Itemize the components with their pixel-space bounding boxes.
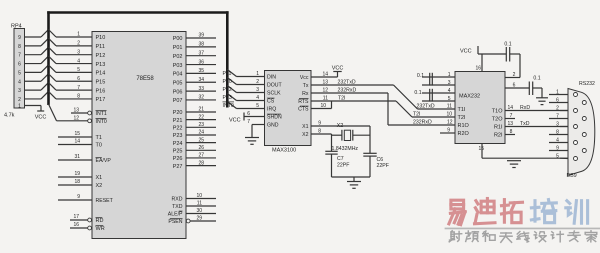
svg-text:VCC: VCC xyxy=(460,49,472,55)
svg-text:3: 3 xyxy=(18,88,21,94)
svg-text:12: 12 xyxy=(447,119,453,125)
svg-text:P22: P22 xyxy=(173,126,183,132)
capacitor 0.1 (C1+ pin1 / C1- pin3) xyxy=(417,72,455,86)
capacitor C7 22PF xyxy=(325,134,349,177)
svg-text:P15: P15 xyxy=(96,79,106,85)
svg-text:8: 8 xyxy=(77,94,80,100)
svg-text:T0: T0 xyxy=(96,143,102,149)
wires bus to MAX3100 (P11 P10 P12 P13 INT0) xyxy=(223,70,265,109)
svg-text:16: 16 xyxy=(475,66,481,72)
capacitor C6 22PF xyxy=(363,126,389,177)
svg-text:31: 31 xyxy=(74,154,80,160)
svg-text:P21: P21 xyxy=(173,118,183,124)
bus P1/INT0 (right vertical) xyxy=(226,11,229,107)
svg-text:33: 33 xyxy=(198,86,204,92)
svg-text:25: 25 xyxy=(198,137,204,143)
svg-text:0.1: 0.1 xyxy=(414,90,421,96)
svg-text:PSEN: PSEN xyxy=(168,219,182,225)
svg-text:R2I: R2I xyxy=(494,133,503,139)
svg-text:X2: X2 xyxy=(302,132,308,138)
svg-text:7: 7 xyxy=(247,119,250,125)
wire PSEN stub pin 29 xyxy=(186,216,216,223)
svg-text:VCC: VCC xyxy=(229,118,241,124)
svg-text:T2I: T2I xyxy=(413,111,421,117)
svg-text:P24: P24 xyxy=(173,141,183,147)
svg-text:P04: P04 xyxy=(173,72,183,78)
svg-text:11: 11 xyxy=(323,95,328,101)
svg-text:6: 6 xyxy=(77,76,80,82)
svg-text:2: 2 xyxy=(77,41,80,47)
driver U3 MAX232 xyxy=(455,72,505,144)
svg-text:15: 15 xyxy=(74,131,80,137)
svg-text:Rx: Rx xyxy=(302,91,309,97)
svg-text:9: 9 xyxy=(18,35,21,41)
wires P00-P07 stubs pins 39-32 xyxy=(186,33,216,101)
svg-text:WR: WR xyxy=(96,226,105,232)
bus P1/INT0 (top horizontal) xyxy=(47,11,228,14)
svg-text:9: 9 xyxy=(318,120,321,126)
svg-text:36: 36 xyxy=(198,59,204,65)
svg-text:R1O: R1O xyxy=(458,123,470,129)
svg-text:26: 26 xyxy=(198,145,204,151)
svg-text:P06: P06 xyxy=(173,89,183,95)
wire DB9 pin 2 lead xyxy=(560,110,568,112)
svg-text:14: 14 xyxy=(74,139,80,145)
svg-text:VCC: VCC xyxy=(35,115,47,121)
svg-text:32: 32 xyxy=(198,95,204,101)
svg-text:X2: X2 xyxy=(337,123,344,129)
wire RXD stub pin 10 xyxy=(186,193,216,199)
svg-text:RD: RD xyxy=(96,218,104,224)
svg-text:7: 7 xyxy=(510,113,513,119)
svg-text:22PF: 22PF xyxy=(337,162,349,168)
MCU U1 78E58 xyxy=(92,32,186,239)
svg-text:P07: P07 xyxy=(173,98,183,104)
svg-text:232TxD: 232TxD xyxy=(338,79,356,85)
wires P20-P27 stubs pins 21-28 xyxy=(186,107,216,167)
svg-text:DIN: DIN xyxy=(267,75,276,81)
power VCC (MAX232 pin 16) xyxy=(460,46,506,72)
wire net 232TxD (MAX3100 Tx pin 13 to MAX232 T1I pin 11) xyxy=(311,79,455,109)
svg-text:MAX3100: MAX3100 xyxy=(272,148,296,154)
svg-text:P01: P01 xyxy=(173,45,183,51)
svg-text:R1I: R1I xyxy=(494,125,503,131)
svg-text:16: 16 xyxy=(73,222,79,228)
svg-text:RP4: RP4 xyxy=(11,24,22,30)
svg-text:12: 12 xyxy=(322,87,328,93)
svg-text:6: 6 xyxy=(18,62,21,68)
svg-text:VCC: VCC xyxy=(332,66,344,72)
svg-text:RESET: RESET xyxy=(96,198,114,204)
svg-text:X1: X1 xyxy=(302,124,308,130)
wire net 232RxD (MAX3100 Rx pin 12 to MAX232 R1O pin 12) xyxy=(311,87,455,125)
wire R2I stub (MAX232 pin 8) xyxy=(505,129,515,135)
svg-text:18: 18 xyxy=(74,179,80,185)
wire T2O stub (MAX232 pin 7) xyxy=(505,113,515,119)
svg-text:21: 21 xyxy=(198,107,204,113)
svg-text:4: 4 xyxy=(256,95,259,101)
svg-text:34: 34 xyxy=(198,77,204,83)
svg-text:R2O: R2O xyxy=(458,131,470,137)
svg-text:38: 38 xyxy=(198,42,204,48)
svg-text:X2: X2 xyxy=(96,183,103,189)
wire X1 (MAX3100 pin 9) xyxy=(311,120,370,126)
wire DB9 pin 3 lead xyxy=(560,126,568,128)
svg-text:P12: P12 xyxy=(223,87,232,93)
ground (MAX232 pin 15 and DB9 pin 5) xyxy=(479,144,569,168)
power VCC (MAX3100 Vcc pin 14) xyxy=(311,66,343,78)
svg-text:14: 14 xyxy=(322,71,328,77)
svg-text:0.1: 0.1 xyxy=(417,73,424,79)
connector J1 DB9 RS232 xyxy=(549,81,595,179)
svg-text:P23: P23 xyxy=(173,133,183,139)
wire X1 stub pin 19 xyxy=(58,171,92,177)
svg-text:9: 9 xyxy=(447,127,450,133)
svg-text:DOUT: DOUT xyxy=(267,83,283,89)
svg-text:P13: P13 xyxy=(96,62,106,68)
svg-text:8: 8 xyxy=(510,129,513,135)
svg-text:P14: P14 xyxy=(96,71,106,77)
wire net TxD (MAX232 R1I pin 13 to DB9 pin 3) xyxy=(505,121,568,127)
svg-text:SCLK: SCLK xyxy=(267,91,281,97)
capacitor 0.1 (V+ pin 2) xyxy=(504,42,520,78)
svg-text:GND: GND xyxy=(267,123,279,129)
svg-text:12: 12 xyxy=(73,115,79,121)
svg-text:1: 1 xyxy=(77,32,80,38)
svg-text:4: 4 xyxy=(77,58,80,64)
svg-text:28: 28 xyxy=(198,160,204,166)
svg-text:Vcc: Vcc xyxy=(300,75,309,81)
svg-text:MAX232: MAX232 xyxy=(459,94,480,100)
svg-text:P11: P11 xyxy=(223,71,232,77)
svg-text:P26: P26 xyxy=(173,156,183,162)
svg-text:78E58: 78E58 xyxy=(136,76,154,82)
svg-text:19: 19 xyxy=(74,171,80,177)
svg-text:P02: P02 xyxy=(173,54,183,60)
svg-text:P11: P11 xyxy=(96,44,105,50)
svg-text:15: 15 xyxy=(479,146,485,152)
svg-text:3: 3 xyxy=(556,121,559,127)
svg-text:P16: P16 xyxy=(96,88,106,94)
wire INT0 from bus to MCU pin 12 xyxy=(49,104,92,123)
svg-text:2: 2 xyxy=(18,97,21,103)
svg-text:T2O: T2O xyxy=(492,117,503,123)
svg-text:RS232: RS232 xyxy=(579,81,595,87)
svg-text:13: 13 xyxy=(322,79,328,85)
svg-text:5: 5 xyxy=(77,67,80,73)
svg-text:SHDN: SHDN xyxy=(267,115,282,121)
svg-text:P12: P12 xyxy=(96,53,106,59)
svg-text:11: 11 xyxy=(447,103,452,109)
svg-text:5: 5 xyxy=(448,96,451,102)
svg-text:Tx: Tx xyxy=(303,83,309,89)
wires bus to MCU P1 pins xyxy=(49,30,93,100)
svg-text:10: 10 xyxy=(196,193,202,199)
crystal X2 1.8432MHz xyxy=(332,123,371,152)
svg-text:2: 2 xyxy=(556,105,559,111)
svg-text:RTS: RTS xyxy=(298,99,309,105)
wire TXD stub pin 11 xyxy=(186,201,216,207)
svg-text:P13: P13 xyxy=(223,95,232,101)
svg-text:4: 4 xyxy=(18,79,21,85)
svg-text:IRQ: IRQ xyxy=(267,107,276,113)
ground (crystal caps) xyxy=(332,177,371,188)
svg-text:232TxD: 232TxD xyxy=(417,103,435,109)
ground (MAX3100 GND pin 7) xyxy=(245,119,265,145)
wire INT1 stub MCU pin 13 xyxy=(71,108,92,115)
svg-text:37: 37 xyxy=(198,50,204,56)
svg-text:22PF: 22PF xyxy=(377,163,389,169)
svg-text:8: 8 xyxy=(318,128,321,134)
svg-text:CTS: CTS xyxy=(298,107,309,113)
svg-text:1: 1 xyxy=(18,104,21,110)
wire EA/VP stub pin 31 xyxy=(58,154,92,160)
svg-text:8: 8 xyxy=(18,44,21,50)
svg-text:P25: P25 xyxy=(173,149,183,155)
wires RP4 pins to bus xyxy=(25,30,49,99)
svg-text:11: 11 xyxy=(197,201,202,207)
svg-text:7: 7 xyxy=(18,53,21,59)
svg-text:T1O: T1O xyxy=(492,109,503,115)
svg-text:P00: P00 xyxy=(173,36,183,42)
wire R2O stub (MAX232 pin 9) xyxy=(440,127,455,133)
svg-text:1: 1 xyxy=(256,71,259,77)
wire RESET stub pin 9 xyxy=(58,194,92,200)
svg-text:22: 22 xyxy=(198,114,204,120)
svg-text:3: 3 xyxy=(77,49,80,55)
svg-text:CS: CS xyxy=(267,99,275,105)
svg-text:13: 13 xyxy=(508,121,514,127)
svg-text:7: 7 xyxy=(77,85,80,91)
capacitor 0.1 (V- pin 6) and ground xyxy=(505,76,548,105)
svg-text:T1: T1 xyxy=(96,135,102,141)
svg-text:4.7k: 4.7k xyxy=(4,113,15,119)
svg-text:3: 3 xyxy=(256,87,259,93)
svg-text:TxD: TxD xyxy=(520,121,530,127)
svg-text:6: 6 xyxy=(247,111,250,117)
svg-text:4: 4 xyxy=(448,88,451,94)
svg-text:T1I: T1I xyxy=(458,107,466,113)
power VCC (RP4 pin 1) xyxy=(25,106,47,121)
svg-text:INT0: INT0 xyxy=(223,103,234,109)
svg-text:INT0: INT0 xyxy=(96,119,107,125)
wire net RxD (MAX232 T1O pin 14 to DB9 pin 2) xyxy=(505,105,568,111)
svg-text:1: 1 xyxy=(448,72,451,78)
svg-text:24: 24 xyxy=(198,130,204,136)
capacitor 0.1 (C2+ pin4 / C2- pin5) xyxy=(414,88,455,102)
svg-text:EA/VP: EA/VP xyxy=(96,158,112,164)
svg-text:2: 2 xyxy=(513,72,516,78)
svg-text:35: 35 xyxy=(198,68,204,74)
wire DB9 pin 5 lead xyxy=(560,157,568,159)
svg-text:5: 5 xyxy=(256,103,259,109)
svg-text:P10: P10 xyxy=(96,35,106,41)
svg-text:P27: P27 xyxy=(173,164,183,170)
wire net T2I (MAX3100 RTS pin 11 + CTS pin 10 to MAX232 T2I pin 10) xyxy=(311,95,455,117)
watermark logo text xyxy=(445,199,600,243)
svg-text:17: 17 xyxy=(73,214,79,220)
svg-text:14: 14 xyxy=(508,105,514,111)
svg-text:T2I: T2I xyxy=(338,95,346,101)
svg-text:P17: P17 xyxy=(96,97,106,103)
svg-text:TXD: TXD xyxy=(172,204,183,210)
svg-text:9: 9 xyxy=(77,194,80,200)
bus P1/INT0 (left vertical) xyxy=(47,11,50,105)
wire RD stub pin 17 xyxy=(70,214,92,222)
svg-text:P20: P20 xyxy=(173,110,183,116)
svg-text:ALE/P: ALE/P xyxy=(168,212,183,218)
svg-text:P03: P03 xyxy=(173,63,183,69)
svg-text:10: 10 xyxy=(320,103,326,109)
svg-text:DB9: DB9 xyxy=(567,173,577,179)
svg-text:C6: C6 xyxy=(377,157,384,163)
svg-text:RxD: RxD xyxy=(520,105,530,111)
svg-text:27: 27 xyxy=(198,153,204,159)
svg-text:2: 2 xyxy=(256,79,259,85)
svg-text:C7: C7 xyxy=(337,156,344,162)
svg-text:10: 10 xyxy=(446,111,452,117)
svg-text:P10: P10 xyxy=(223,79,232,85)
svg-text:5: 5 xyxy=(556,153,559,159)
svg-text:232RxD: 232RxD xyxy=(413,119,432,125)
UART U2 MAX3100 xyxy=(265,71,312,154)
wire X2 (MAX3100 pin 8) xyxy=(311,128,332,134)
svg-text:13: 13 xyxy=(73,108,79,114)
svg-text:39: 39 xyxy=(198,33,204,39)
svg-text:0.1: 0.1 xyxy=(504,42,511,48)
svg-text:RXD: RXD xyxy=(172,197,183,203)
resistor pack RP4 xyxy=(4,24,25,119)
wire T0 stub pin 14 xyxy=(58,139,92,145)
svg-text:6: 6 xyxy=(513,82,516,88)
wire ALE/P stub pin 30 xyxy=(186,208,216,214)
svg-text:0.1: 0.1 xyxy=(533,76,540,82)
svg-text:X1: X1 xyxy=(96,175,103,181)
svg-text:P05: P05 xyxy=(173,80,183,86)
wire T1 stub pin 15 xyxy=(58,131,92,137)
svg-text:30: 30 xyxy=(196,208,202,214)
svg-text:29: 29 xyxy=(196,216,202,222)
power VCC (MAX3100 SHDN pin 6) xyxy=(229,111,265,124)
svg-text:23: 23 xyxy=(198,122,204,128)
svg-text:232RxD: 232RxD xyxy=(338,87,357,93)
svg-text:INT1: INT1 xyxy=(96,111,107,117)
wire X2 stub pin 18 xyxy=(58,179,92,185)
wire WR stub pin 16 xyxy=(70,222,92,230)
svg-text:5: 5 xyxy=(18,70,21,76)
svg-text:3: 3 xyxy=(448,80,451,86)
svg-text:T2I: T2I xyxy=(458,115,466,121)
